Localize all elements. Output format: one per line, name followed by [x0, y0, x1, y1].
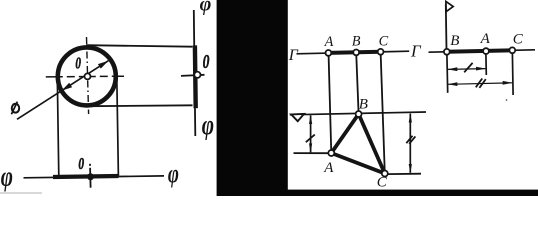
vertical centerline [87, 37, 89, 114]
horizontal centerline [46, 75, 124, 78]
arrow down [309, 143, 312, 153]
G line [297, 51, 410, 54]
svg-text:A: A [323, 160, 334, 176]
arrowhead upper right [98, 61, 109, 69]
vertex B' [356, 111, 362, 117]
flag marker left [291, 114, 304, 121]
svg-text:φ: φ [202, 110, 214, 141]
point B [353, 50, 359, 56]
scan shadow bottom left [0, 192, 42, 193]
point C [378, 49, 384, 55]
diameter symbol [12, 104, 19, 113]
speck [506, 99, 508, 101]
right dimension line [409, 114, 411, 173]
flag pennant [446, 1, 453, 11]
svg-text:C: C [377, 174, 388, 190]
arrow up right dim [409, 113, 412, 123]
vertex C' [382, 171, 388, 177]
triangle side B'C' [359, 114, 385, 174]
base line [429, 50, 536, 52]
dimension B-A [448, 68, 486, 71]
arrow up [309, 114, 312, 124]
point B2 [444, 49, 450, 55]
point O3 [87, 173, 94, 180]
svg-text:Г: Г [288, 47, 299, 64]
scanner black band center [217, 0, 288, 196]
horizontal projection thick segment [53, 176, 119, 177]
svg-text:0: 0 [75, 54, 81, 73]
svg-text:A: A [480, 31, 491, 47]
arrow down right dim [409, 164, 412, 174]
point C2 [509, 47, 515, 53]
dimension B-C [448, 83, 512, 85]
triangle side A'B' [331, 114, 358, 153]
double tick right [406, 136, 412, 143]
top tangent line [86, 45, 193, 47]
svg-text:A: A [324, 34, 334, 50]
circle (sphere outline) O [58, 47, 116, 105]
point A [326, 50, 332, 56]
svg-text:Г: Г [410, 42, 422, 61]
double tick [476, 79, 482, 88]
thick segment A-C [329, 52, 381, 53]
diameter leader line [17, 61, 108, 120]
drop line A [329, 56, 332, 150]
drop line C [381, 55, 385, 171]
single tick [464, 63, 472, 72]
point O2 [194, 72, 200, 78]
frontal projection thick segment [193, 45, 198, 108]
scanner black bar bottom right [288, 190, 538, 196]
svg-text:C: C [513, 31, 524, 47]
svg-text:φ: φ [1, 162, 13, 193]
svg-text:B: B [352, 34, 361, 50]
A level line [294, 152, 332, 154]
point A2 [483, 48, 489, 54]
flag pole [445, 4, 448, 50]
vertex A' [328, 150, 334, 156]
bottom tangent line [88, 104, 193, 107]
svg-text:B: B [450, 33, 459, 49]
point O2 tick [181, 75, 205, 76]
extension line B [446, 54, 449, 92]
triangle side A'C' [331, 153, 385, 174]
svg-text:B: B [359, 96, 368, 112]
C level line [388, 173, 422, 175]
single tick left [306, 135, 315, 143]
frontal axis line (vertical) [194, 10, 196, 136]
svg-text:C: C [379, 33, 389, 49]
extension line A [485, 54, 487, 75]
extension line C [511, 53, 514, 95]
right drop line [117, 77, 119, 176]
B horizontal line [290, 112, 426, 115]
left drop line [57, 77, 59, 177]
left dimension line [310, 115, 312, 152]
svg-text:φ: φ [168, 159, 179, 188]
center point O1 [85, 73, 91, 79]
svg-text:0: 0 [203, 51, 210, 73]
horizontal axis line (bottom) [24, 176, 165, 178]
drop line B [356, 55, 358, 111]
arrowhead lower left [62, 83, 73, 91]
point O3 tick [89, 164, 92, 188]
svg-text:φ: φ [200, 0, 212, 15]
svg-text:0: 0 [78, 154, 84, 173]
thick segment B-C [447, 50, 513, 52]
